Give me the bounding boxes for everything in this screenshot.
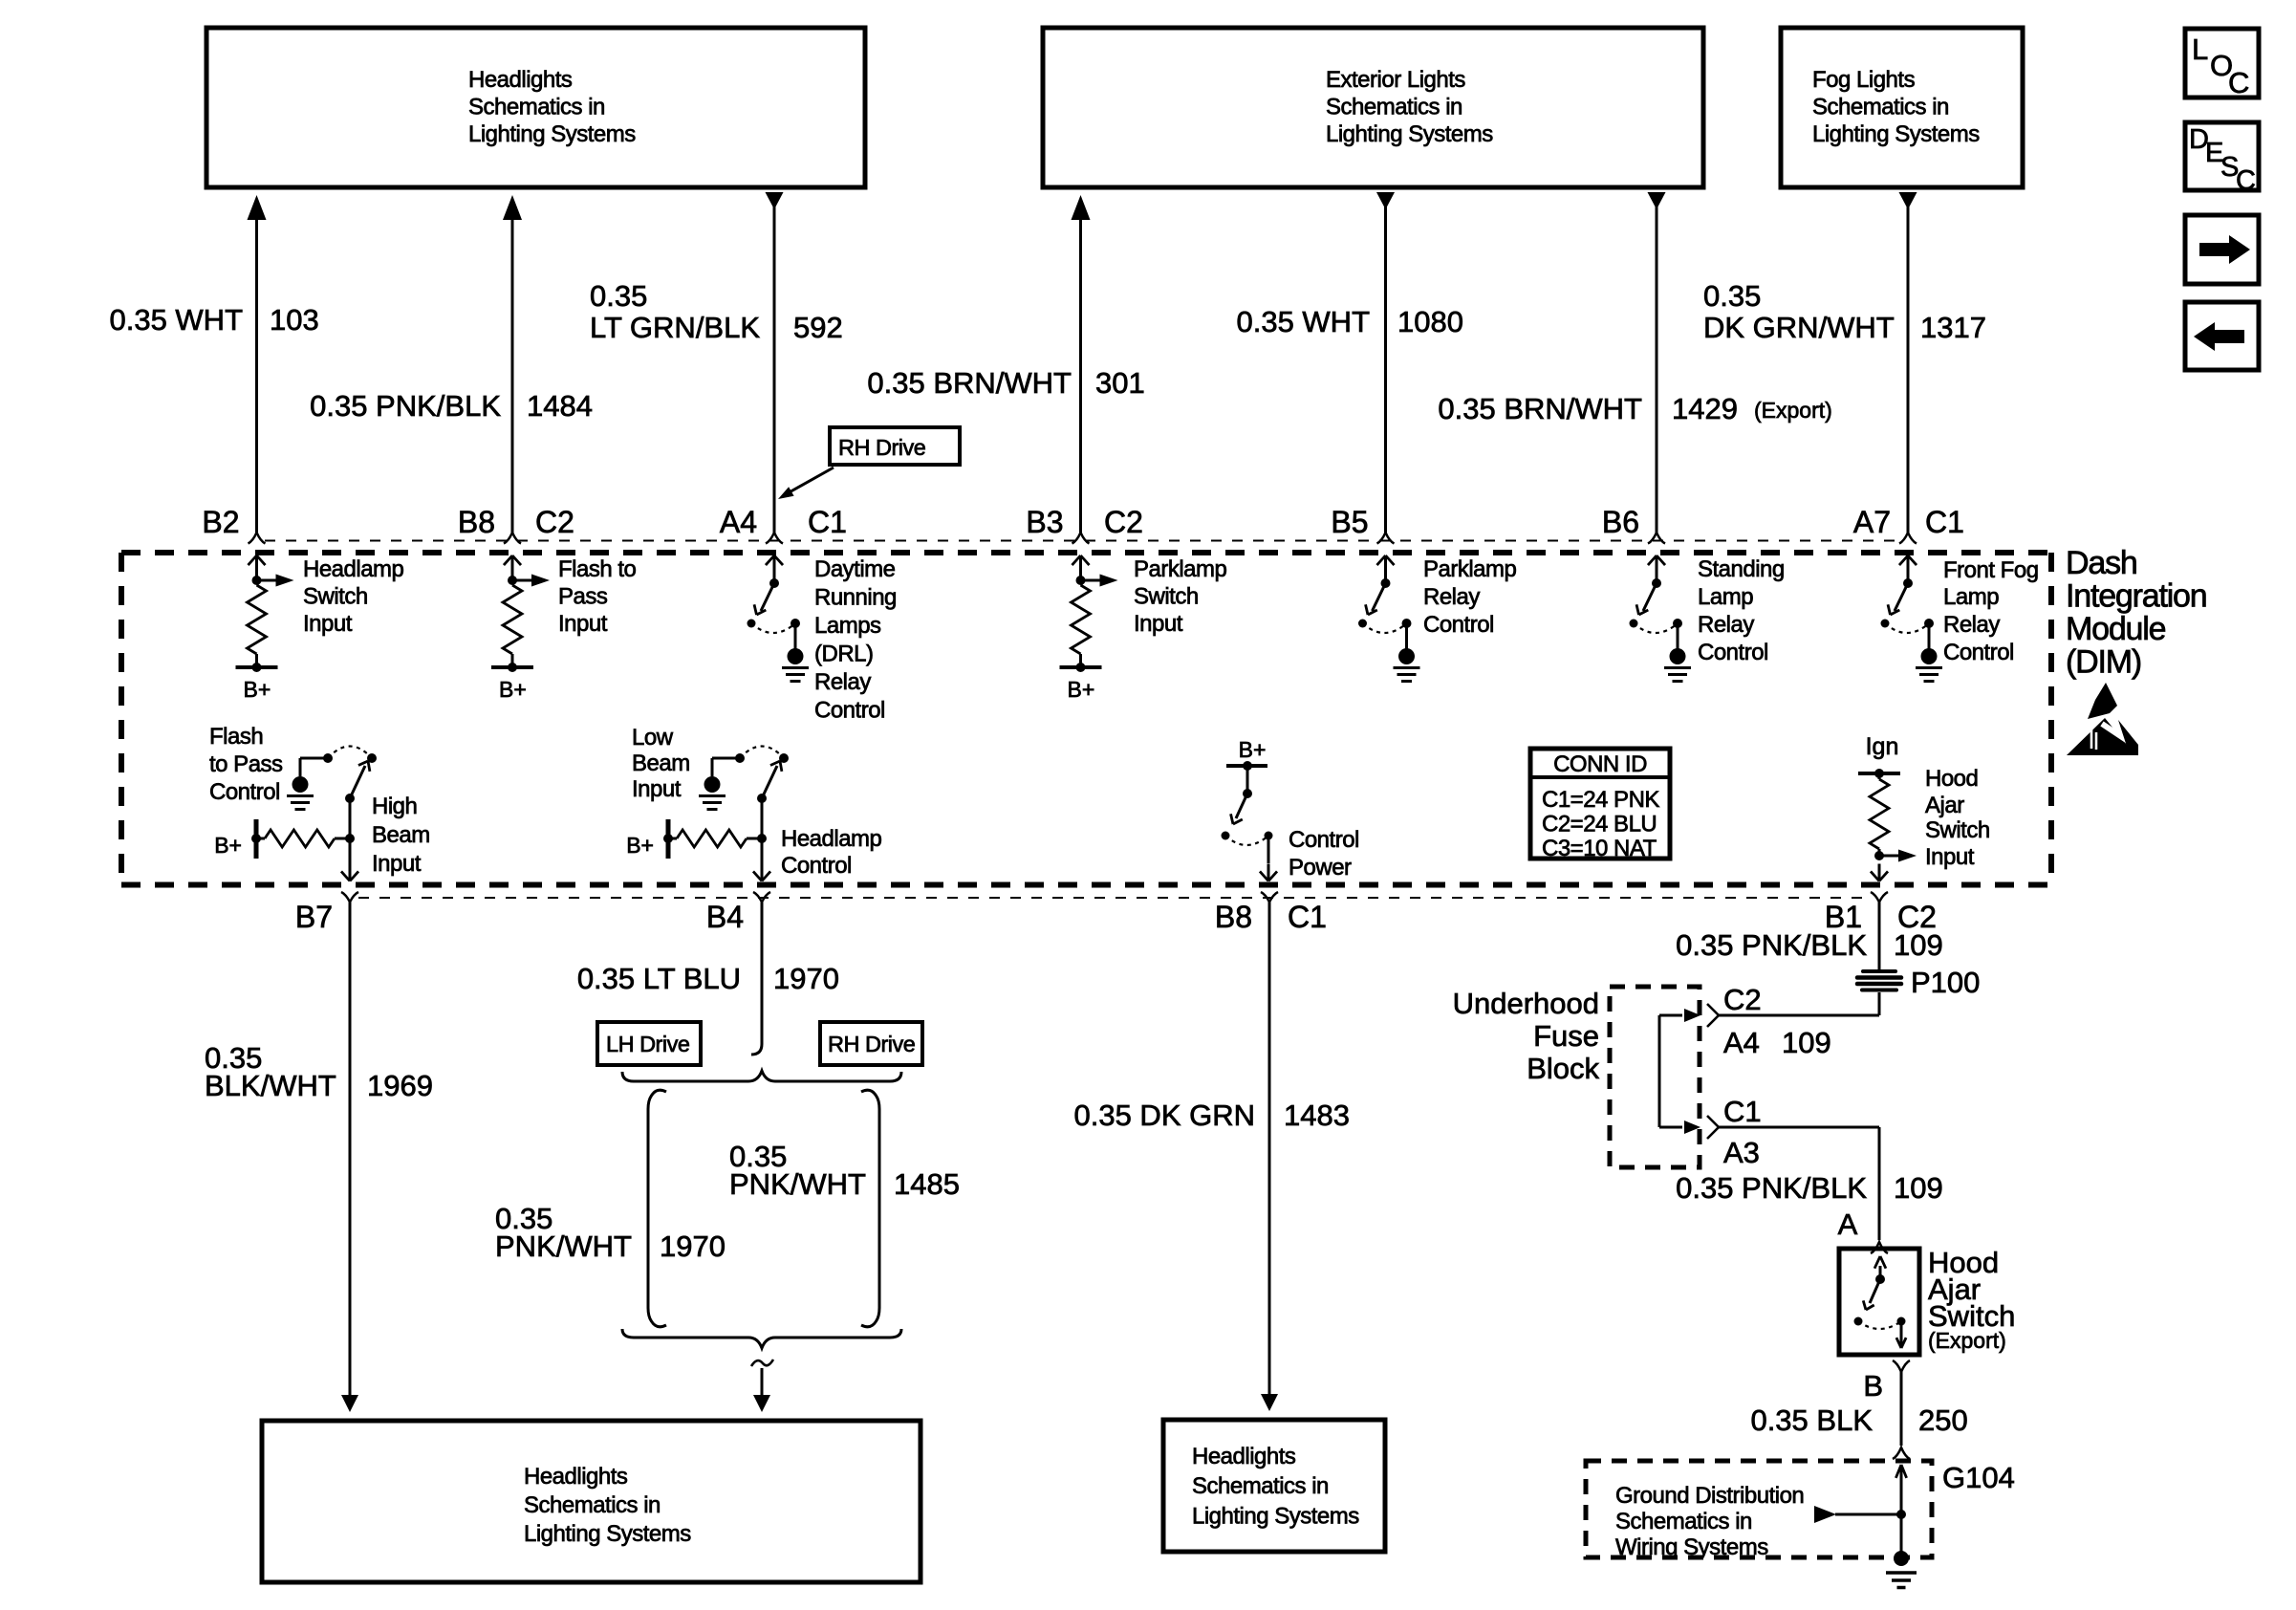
svg-text:Lamp: Lamp xyxy=(1943,584,1999,610)
label 0.35 PNK/BLK (109 upper) xyxy=(1676,928,1867,962)
svg-text:Standing: Standing xyxy=(1698,556,1785,582)
svg-text:BLK/WHT: BLK/WHT xyxy=(205,1069,336,1102)
svg-text:B6: B6 xyxy=(1602,505,1639,539)
pin B5 xyxy=(1331,505,1368,539)
label Dash Integration Module (DIM) xyxy=(2066,545,2206,681)
pin C1 (A4 wire) xyxy=(808,505,847,539)
svg-text:Input: Input xyxy=(632,776,682,802)
wire Headlamp Control output to pin B4 xyxy=(753,838,770,881)
pin A4 xyxy=(720,505,757,539)
svg-text:Input: Input xyxy=(372,851,422,877)
box: Fog Lights Schematics in Lighting Systems (top right) xyxy=(1781,28,2023,187)
Underhood Fuse Block dashed box xyxy=(1610,987,1700,1167)
connector chevron below pin B8/C1 xyxy=(1261,892,1278,903)
svg-text:Control: Control xyxy=(1698,640,1768,665)
pin B (hood ajar switch) xyxy=(1863,1369,1883,1403)
svg-text:Switch: Switch xyxy=(1925,817,1990,843)
pin B2 xyxy=(202,505,239,539)
connector chevron above G104 xyxy=(1893,1447,1910,1459)
svg-text:Hood: Hood xyxy=(1925,766,1978,792)
svg-text:B3: B3 xyxy=(1026,505,1063,539)
svg-text:0.35 BRN/WHT: 0.35 BRN/WHT xyxy=(867,366,1072,400)
wire B5 from Exterior Lights box (0.35 WHT 1080) xyxy=(1376,192,1395,544)
svg-text:Front Fog: Front Fog xyxy=(1943,557,2039,583)
svg-text:C1: C1 xyxy=(1925,505,1964,539)
svg-text:Switch: Switch xyxy=(1134,584,1199,610)
svg-text:Control: Control xyxy=(1943,640,2014,665)
svg-text:A4: A4 xyxy=(1723,1026,1760,1059)
svg-text:Relay: Relay xyxy=(1943,612,2000,638)
svg-text:B2: B2 xyxy=(202,505,239,539)
DIM input: Flash to Pass Input pull-up resistor to B+ (pin B8) xyxy=(491,555,550,702)
icon box DESC xyxy=(2185,122,2259,196)
svg-text:Lamps: Lamps xyxy=(814,613,881,639)
label 1080 xyxy=(1397,305,1463,338)
svg-text:109: 109 xyxy=(1782,1026,1831,1059)
svg-text:Fog Lights: Fog Lights xyxy=(1812,67,1916,93)
label Headlamp Control xyxy=(781,826,882,879)
label 1483 xyxy=(1284,1099,1350,1132)
svg-text:C: C xyxy=(2236,165,2256,196)
junction dot G104 xyxy=(1896,1510,1906,1519)
DIM output: DRL Relay Control switch to ground (pin A4) xyxy=(747,555,810,682)
label Flash to Pass Control xyxy=(209,724,283,805)
svg-text:0.35: 0.35 xyxy=(590,279,647,313)
svg-text:Control: Control xyxy=(1289,827,1359,853)
svg-text:Headlights: Headlights xyxy=(1192,1444,1296,1469)
svg-text:(Export): (Export) xyxy=(1928,1328,2006,1353)
svg-text:B4: B4 xyxy=(706,900,744,934)
svg-text:Lighting Systems: Lighting Systems xyxy=(1326,121,1493,147)
svg-text:1484: 1484 xyxy=(527,389,593,423)
wire High Beam output to pin B7 xyxy=(341,838,358,881)
wire P100 to Underhood Fuse Block C2 xyxy=(1719,992,1879,1015)
wire A7/C1 from Fog Lights box (0.35 DK GRN/WHT 1317) xyxy=(1899,192,1917,544)
wire B1/C2 down to P100 (0.35 PNK/BLK 109) xyxy=(1878,902,1881,970)
svg-text:0.35 PNK/BLK: 0.35 PNK/BLK xyxy=(310,389,501,423)
svg-text:B+: B+ xyxy=(1239,737,1267,762)
label 0.35 LT BLU xyxy=(577,962,741,995)
label 109 (lower) xyxy=(1894,1171,1943,1205)
svg-text:Exterior Lights: Exterior Lights xyxy=(1326,67,1465,93)
label 0.35 PNK/WHT 1970 (LH) xyxy=(495,1202,726,1263)
svg-text:1970: 1970 xyxy=(660,1229,726,1263)
svg-text:B7: B7 xyxy=(295,900,333,934)
label 1484 xyxy=(527,389,593,423)
svg-text:C1: C1 xyxy=(808,505,847,539)
svg-text:Switch: Switch xyxy=(303,584,368,610)
label Hood Ajar Switch (Export) xyxy=(1928,1246,2015,1353)
label Low Beam Input xyxy=(632,725,690,802)
svg-text:Control: Control xyxy=(1423,612,1494,638)
ground distribution dashed box xyxy=(1586,1461,1932,1557)
callout box RH Drive (top) xyxy=(778,427,960,499)
label 0.35 WHT xyxy=(109,303,243,337)
DIM output: Standing Lamp Relay Control switch to ground (pin B6) xyxy=(1630,555,1692,682)
pin A (hood ajar switch) xyxy=(1838,1207,1858,1241)
svg-text:Schematics in: Schematics in xyxy=(1326,95,1462,120)
svg-text:Input: Input xyxy=(1925,844,1975,870)
svg-text:C1: C1 xyxy=(1723,1095,1762,1128)
label A3 xyxy=(1723,1136,1760,1169)
svg-text:A7: A7 xyxy=(1853,505,1891,539)
svg-text:Flash to: Flash to xyxy=(558,556,637,582)
svg-text:LH Drive: LH Drive xyxy=(606,1032,690,1056)
svg-text:B+: B+ xyxy=(499,677,527,702)
icon box right-arrow xyxy=(2185,215,2259,284)
svg-text:Schematics in: Schematics in xyxy=(524,1492,661,1518)
wire Control Power output to pin B8/C1 xyxy=(1260,864,1277,881)
svg-text:0.35 WHT: 0.35 WHT xyxy=(109,303,243,337)
pin B3 xyxy=(1026,505,1063,539)
svg-text:Schematics in: Schematics in xyxy=(1615,1509,1752,1534)
svg-text:0.35 BRN/WHT: 0.35 BRN/WHT xyxy=(1438,392,1642,425)
svg-text:Schematics in: Schematics in xyxy=(468,95,605,120)
svg-text:1429: 1429 xyxy=(1672,392,1738,425)
DIM output: Front Fog Lamp Relay Control switch to ground (pin A7) xyxy=(1881,555,1943,682)
svg-text:Parklamp: Parklamp xyxy=(1134,556,1227,582)
DIM input: Parklamp Switch Input pull-up resistor to B+ (pin B3) xyxy=(1060,555,1118,702)
callout box LH Drive xyxy=(597,1022,701,1065)
svg-text:Control: Control xyxy=(781,853,852,879)
svg-text:Relay: Relay xyxy=(814,669,871,695)
svg-text:A3: A3 xyxy=(1723,1136,1760,1169)
svg-text:0.35: 0.35 xyxy=(1703,279,1761,313)
pin B7 xyxy=(295,900,333,934)
Dash Integration Module dashed border xyxy=(121,553,2051,885)
svg-text:Headlamp: Headlamp xyxy=(781,826,882,852)
DIM: Hood Ajar Switch Input resistor from Ign xyxy=(1858,733,1917,862)
svg-text:Relay: Relay xyxy=(1423,584,1480,610)
label 1429 xyxy=(1672,392,1738,425)
wire B4 down (0.35 LT BLU 1970) xyxy=(751,902,762,1055)
svg-text:0.35 WHT: 0.35 WHT xyxy=(1236,305,1370,338)
svg-text:Relay: Relay xyxy=(1698,612,1754,638)
svg-text:(DIM): (DIM) xyxy=(2066,644,2141,681)
wire Hood Ajar Switch to G104 (0.35 BLK 250) xyxy=(1900,1372,1903,1446)
svg-text:Headlamp: Headlamp xyxy=(303,556,404,582)
brace top (wire splits LH/RH) xyxy=(622,1071,901,1081)
svg-text:250: 250 xyxy=(1918,1403,1968,1437)
svg-text:Lighting Systems: Lighting Systems xyxy=(1812,121,1980,147)
svg-text:PNK/WHT: PNK/WHT xyxy=(495,1229,632,1263)
svg-text:C2: C2 xyxy=(1104,505,1143,539)
connector chevron below pin B4 xyxy=(753,892,770,903)
label P100 xyxy=(1911,966,1980,999)
svg-text:DK GRN/WHT: DK GRN/WHT xyxy=(1703,311,1895,344)
svg-text:High: High xyxy=(372,794,417,819)
svg-text:109: 109 xyxy=(1894,928,1943,962)
svg-text:CONN ID: CONN ID xyxy=(1553,751,1647,777)
svg-text:Input: Input xyxy=(558,611,608,637)
label 1970 (wire B4) xyxy=(773,962,839,995)
wire B2 to Headlights box (0.35 WHT 103) xyxy=(248,195,267,544)
svg-text:109: 109 xyxy=(1894,1171,1943,1205)
label Parklamp Relay Control xyxy=(1423,556,1517,638)
svg-text:C1: C1 xyxy=(1288,900,1327,934)
svg-text:Headlights: Headlights xyxy=(524,1464,628,1490)
DIM: Control Power switch from B+ xyxy=(1222,737,1273,863)
label Standing Lamp Relay Control xyxy=(1698,556,1785,665)
svg-text:0.35 PNK/BLK: 0.35 PNK/BLK xyxy=(1676,1171,1867,1205)
label High Beam Input xyxy=(372,794,430,877)
svg-text:Ajar: Ajar xyxy=(1925,793,1964,818)
icon box LOC xyxy=(2185,29,2259,99)
connector chevron below pin B1/C2 xyxy=(1871,892,1888,903)
off-page arrow to ground distribution xyxy=(1814,1506,1901,1523)
svg-text:RH Drive: RH Drive xyxy=(838,435,926,460)
svg-text:1969: 1969 xyxy=(367,1069,433,1102)
box: Headlights Schematics in Lighting Systems (bottom left) xyxy=(262,1421,921,1582)
wire B6 from Exterior Lights box (0.35 BRN/WHT 1429 Export) xyxy=(1648,192,1666,544)
label 250 xyxy=(1918,1403,1968,1437)
label 0.35 PNK/WHT 1485 (RH) xyxy=(729,1140,960,1201)
thin dashed connector line (top boundary) xyxy=(265,540,1900,542)
ground G104 xyxy=(1886,1551,1917,1588)
svg-text:G104: G104 xyxy=(1942,1461,2015,1494)
svg-text:B+: B+ xyxy=(244,677,271,702)
pin C2 (bottom right) xyxy=(1897,900,1937,934)
wire into G104 with up arrow xyxy=(1895,1465,1906,1554)
label C2 (fuse block) xyxy=(1723,983,1762,1016)
pin B8 (bottom) xyxy=(1215,900,1252,934)
connector C2/A4 at fuse block xyxy=(1659,1004,1719,1027)
svg-text:C2: C2 xyxy=(535,505,574,539)
label 0.35 DK GRN/WHT xyxy=(1703,279,1895,344)
svg-text:1970: 1970 xyxy=(773,962,839,995)
svg-text:301: 301 xyxy=(1095,366,1145,400)
svg-text:Headlights: Headlights xyxy=(468,67,573,93)
svg-text:Lighting Systems: Lighting Systems xyxy=(524,1521,691,1547)
label 103 xyxy=(270,303,319,337)
svg-text:B+: B+ xyxy=(1068,677,1095,702)
wire B8/C1 to bottom Headlights box (0.35 DK GRN 1483) xyxy=(1261,902,1278,1411)
svg-text:C3=10 NAT: C3=10 NAT xyxy=(1542,836,1657,861)
label Front Fog Lamp Relay Control xyxy=(1943,557,2039,665)
svg-text:Module: Module xyxy=(2066,611,2166,647)
svg-text:L: L xyxy=(2192,33,2208,66)
svg-text:592: 592 xyxy=(793,311,843,344)
svg-text:Pass: Pass xyxy=(558,584,608,610)
label G104 xyxy=(1942,1461,2015,1494)
label 0.35 BLK/WHT xyxy=(205,1041,336,1102)
svg-text:Low: Low xyxy=(632,725,674,751)
CONN ID table xyxy=(1530,749,1670,861)
label 0.35 BLK xyxy=(1750,1403,1873,1437)
pin C2 (B8 wire) xyxy=(535,505,574,539)
svg-text:C: C xyxy=(2228,66,2249,99)
label Control Power xyxy=(1289,827,1359,881)
label 1969 xyxy=(367,1069,433,1102)
svg-text:LT GRN/BLK: LT GRN/BLK xyxy=(590,311,760,344)
DIM input: Headlamp Switch Input pull-up resistor to B+ (pin B2) xyxy=(236,555,294,702)
svg-text:Fuse: Fuse xyxy=(1533,1019,1599,1053)
svg-text:103: 103 xyxy=(270,303,319,337)
svg-text:0.35 LT BLU: 0.35 LT BLU xyxy=(577,962,741,995)
bracket left (LH drive bundle) xyxy=(648,1090,666,1327)
label Parklamp Switch Input xyxy=(1134,556,1227,637)
svg-text:B+: B+ xyxy=(214,833,242,858)
icon box left-arrow xyxy=(2185,302,2259,370)
svg-text:(Export): (Export) xyxy=(1754,398,1832,423)
svg-text:Block: Block xyxy=(1527,1052,1599,1085)
box: Exterior Lights Schematics in Lighting Systems (top middle) xyxy=(1043,28,1703,187)
Hood Ajar Switch box xyxy=(1839,1249,1919,1355)
label 0.35 BRN/WHT (1429) xyxy=(1438,392,1642,425)
brace bottom (bundles rejoin) xyxy=(622,1329,901,1348)
svg-text:Ign: Ign xyxy=(1866,733,1899,760)
connector chevron above Hood Ajar Switch xyxy=(1871,1242,1888,1253)
svg-text:(DRL): (DRL) xyxy=(814,642,874,667)
svg-text:B8: B8 xyxy=(1215,900,1252,934)
svg-text:Running: Running xyxy=(814,585,897,611)
svg-text:C2: C2 xyxy=(1723,983,1762,1016)
label 0.35 DK GRN xyxy=(1073,1099,1255,1132)
pin A7 xyxy=(1853,505,1891,539)
label 0.35 PNK/BLK xyxy=(310,389,501,423)
svg-text:1483: 1483 xyxy=(1284,1099,1350,1132)
pin B6 xyxy=(1602,505,1639,539)
svg-text:Wiring Systems: Wiring Systems xyxy=(1615,1534,1768,1560)
svg-text:A4: A4 xyxy=(720,505,757,539)
label Daytime Running Lamps (DRL) Relay Control xyxy=(814,556,897,724)
svg-text:0.35 PNK/BLK: 0.35 PNK/BLK xyxy=(1676,928,1867,962)
bracket right (RH drive bundle) xyxy=(861,1090,879,1327)
box: Headlights Schematics in Lighting Systems (top left) xyxy=(206,28,865,187)
box: Headlights Schematics in Lighting Systems (bottom middle) xyxy=(1163,1420,1385,1552)
svg-text:Beam: Beam xyxy=(632,751,690,776)
label 0.35 PNK/BLK (109 lower) xyxy=(1676,1171,1867,1205)
svg-text:Schematics in: Schematics in xyxy=(1192,1473,1329,1499)
svg-text:1317: 1317 xyxy=(1920,311,1986,344)
svg-text:Parklamp: Parklamp xyxy=(1423,556,1517,582)
pin B8 xyxy=(458,505,495,539)
svg-text:B8: B8 xyxy=(458,505,495,539)
callout box RH Drive (bottom) xyxy=(820,1022,922,1065)
svg-text:Input: Input xyxy=(303,611,353,637)
connector chevron below pin B7 xyxy=(341,892,358,903)
pin B1 xyxy=(1825,900,1862,934)
pin C1 (bottom) xyxy=(1288,900,1327,934)
svg-text:0.35 BLK: 0.35 BLK xyxy=(1750,1403,1873,1437)
wire B3/C2 to Exterior Lights box (0.35 BRN/WHT 301) xyxy=(1072,195,1091,544)
svg-text:1080: 1080 xyxy=(1397,305,1463,338)
label (Export) xyxy=(1754,398,1832,423)
wire Hood Ajar Switch Input to pin B1/C2 xyxy=(1871,864,1888,881)
label Underhood Fuse Block xyxy=(1453,987,1600,1085)
svg-text:PNK/WHT: PNK/WHT xyxy=(729,1167,866,1201)
label Hood Ajar Switch Input xyxy=(1925,766,1990,870)
svg-text:Schematics in: Schematics in xyxy=(1812,95,1949,120)
label 109 (upper) xyxy=(1894,928,1943,962)
svg-text:B: B xyxy=(1863,1369,1883,1403)
label C1 (fuse block) xyxy=(1723,1095,1762,1128)
fuse block internal link wire xyxy=(1658,1015,1661,1127)
DIM: Low Beam Input switch and Headlamp Control resistor from B+ xyxy=(626,747,789,859)
thin dashed connector line (bottom boundary) xyxy=(358,897,1872,899)
svg-text:Control: Control xyxy=(814,698,885,724)
DIM: Flash to Pass Control switch and High Beam Input resistor from B+ xyxy=(214,747,377,859)
wire B7 to bottom Headlights box (0.35 BLK/WHT 1969) xyxy=(341,902,358,1412)
wire bundle to bottom Headlights box xyxy=(751,1360,773,1412)
svg-text:B+: B+ xyxy=(626,833,654,858)
svg-text:P100: P100 xyxy=(1911,966,1980,999)
label Headlamp Switch Input xyxy=(303,556,404,637)
svg-text:A: A xyxy=(1838,1207,1858,1241)
wire B8/C2 to Headlights box (0.35 PNK/BLK 1484) xyxy=(503,195,522,544)
svg-text:0.35 DK GRN: 0.35 DK GRN xyxy=(1073,1099,1255,1132)
svg-text:Flash: Flash xyxy=(209,724,263,750)
svg-text:Power: Power xyxy=(1289,855,1352,881)
svg-text:1485: 1485 xyxy=(894,1167,960,1201)
label Ground Distribution Schematics in Wiring Systems xyxy=(1615,1483,1804,1560)
connector C1/A3 at fuse block xyxy=(1659,1116,1719,1139)
svg-text:Integration: Integration xyxy=(2066,578,2206,615)
label A4 109 xyxy=(1723,1026,1831,1059)
svg-text:RH Drive: RH Drive xyxy=(828,1032,916,1056)
wire A4/C1 from Headlights box (0.35 LT GRN/BLK 592) xyxy=(766,192,784,544)
svg-text:Dash: Dash xyxy=(2066,545,2137,581)
grommet P100 xyxy=(1857,971,1901,990)
connector chevron below Hood Ajar Switch xyxy=(1893,1360,1910,1372)
label 1317 xyxy=(1920,311,1986,344)
pin C2 (B3 wire) xyxy=(1104,505,1143,539)
svg-text:Input: Input xyxy=(1134,611,1183,637)
svg-text:Ground Distribution: Ground Distribution xyxy=(1615,1483,1804,1509)
pin C1 (A7 wire) xyxy=(1925,505,1964,539)
svg-text:Control: Control xyxy=(209,779,280,805)
wire fuse block C1 to Hood Ajar Switch xyxy=(1719,1127,1879,1240)
label 592 xyxy=(793,311,843,344)
svg-text:Underhood: Underhood xyxy=(1453,987,1599,1020)
svg-text:Lighting Systems: Lighting Systems xyxy=(1192,1504,1359,1530)
svg-text:Beam: Beam xyxy=(372,822,430,848)
svg-text:B5: B5 xyxy=(1331,505,1368,539)
label 0.35 WHT (1080) xyxy=(1236,305,1370,338)
svg-text:Lamp: Lamp xyxy=(1698,584,1753,610)
svg-text:to Pass: to Pass xyxy=(209,751,283,777)
svg-text:Daytime: Daytime xyxy=(814,556,896,582)
label 0.35 BRN/WHT xyxy=(867,366,1072,400)
label Flash to Pass Input xyxy=(558,556,637,637)
ESD static sensitive symbol xyxy=(2067,683,2145,755)
label 0.35 LT GRN/BLK xyxy=(590,279,760,344)
svg-text:C2=24 BLU: C2=24 BLU xyxy=(1542,812,1657,838)
svg-text:C1=24 PNK: C1=24 PNK xyxy=(1542,787,1659,813)
DIM output: Parklamp Relay Control switch to ground (pin B5) xyxy=(1358,555,1420,682)
pin B4 xyxy=(706,900,744,934)
label 301 xyxy=(1095,366,1145,400)
svg-text:Lighting Systems: Lighting Systems xyxy=(468,121,636,147)
